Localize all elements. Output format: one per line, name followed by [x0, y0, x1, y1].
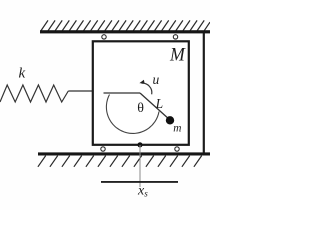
ceiling wall	[40, 30, 210, 33]
mass m bob	[166, 116, 174, 124]
svg-text:u: u	[153, 72, 160, 87]
spring k	[0, 85, 68, 102]
svg-text:θ: θ	[137, 101, 144, 116]
node on block bottom	[137, 142, 142, 147]
roller top-right	[173, 35, 177, 39]
block M	[93, 41, 189, 145]
pendulum rod L	[140, 93, 170, 120]
right wall post	[203, 33, 205, 153]
roller bottom-left	[101, 147, 105, 151]
svg-text:m: m	[173, 121, 182, 135]
svg-text:L: L	[155, 96, 164, 111]
wire displacement reference	[139, 145, 141, 187]
datum line	[101, 181, 178, 183]
pendulum reference line	[104, 92, 141, 94]
angle arc theta	[106, 95, 159, 134]
roller top-left	[102, 35, 106, 39]
rotation arrow u	[142, 83, 152, 94]
wire spring to block	[68, 90, 92, 92]
svg-text:M: M	[169, 45, 186, 66]
floor hatching	[38, 156, 202, 167]
floor wall	[38, 152, 210, 155]
ceiling hatching	[41, 20, 210, 30]
svg-text:k: k	[19, 65, 26, 81]
roller bottom-right	[175, 147, 179, 151]
